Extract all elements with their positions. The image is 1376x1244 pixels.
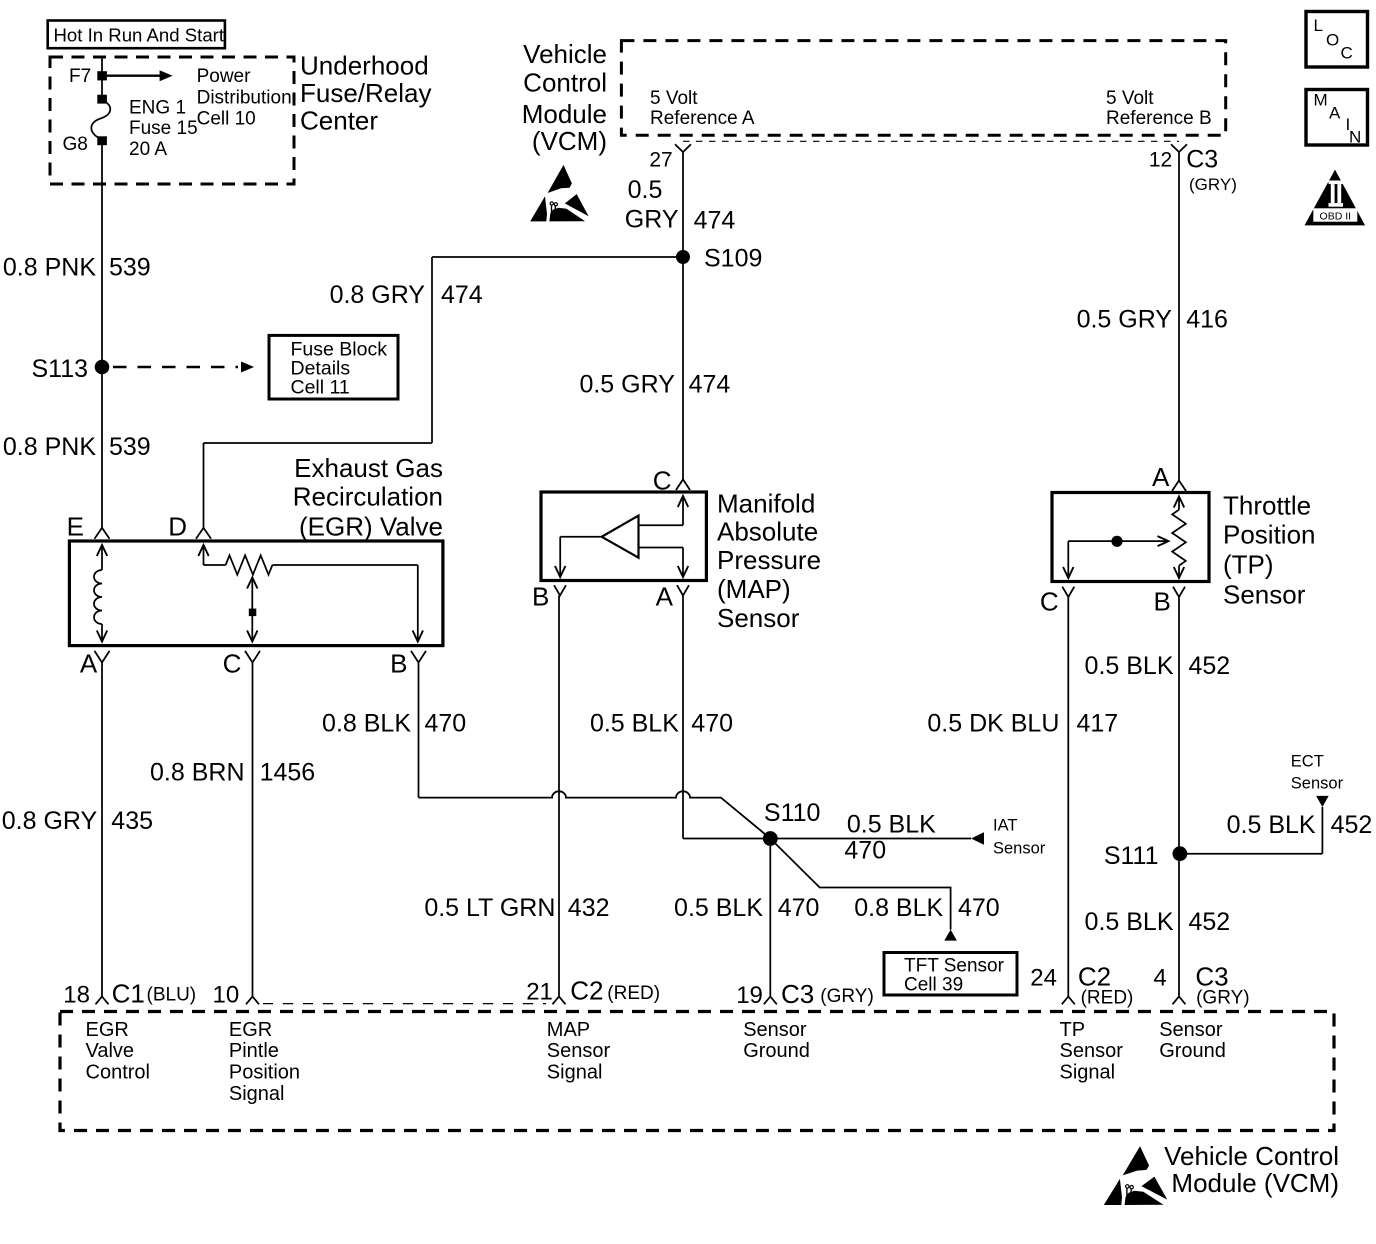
svg-text:Manifold: Manifold [717,488,815,518]
svg-text:(BLU): (BLU) [147,985,197,1006]
svg-text:M: M [1314,91,1328,110]
svg-text:(GRY): (GRY) [1196,988,1249,1009]
svg-text:0.5 LT GRN: 0.5 LT GRN [424,894,555,922]
svg-text:0.8 BRN: 0.8 BRN [150,758,244,786]
svg-text:Ground: Ground [743,1040,810,1062]
svg-text:539: 539 [109,433,151,461]
svg-text:21: 21 [526,979,553,1006]
svg-text:B: B [390,648,407,678]
svg-text:Hot In Run And Start: Hot In Run And Start [54,25,225,46]
svg-text:Reference A: Reference A [650,108,755,129]
svg-text:24: 24 [1030,965,1057,992]
svg-text:A: A [656,582,674,612]
svg-text:C1: C1 [112,979,145,1009]
svg-text:(GRY): (GRY) [820,986,873,1007]
svg-text:0.8 PNK: 0.8 PNK [3,253,96,281]
svg-text:GRY: GRY [625,206,679,234]
svg-text:10: 10 [212,982,239,1009]
svg-text:0.5 BLK: 0.5 BLK [1085,908,1174,936]
svg-text:Signal: Signal [547,1062,603,1084]
svg-text:Center: Center [300,106,378,136]
svg-text:(RED): (RED) [607,983,660,1004]
svg-text:Module (VCM): Module (VCM) [1171,1168,1339,1198]
svg-text:Cell 11: Cell 11 [291,377,350,399]
svg-text:0.5 BLK: 0.5 BLK [1085,652,1174,680]
svg-text:(TP): (TP) [1223,549,1274,579]
svg-text:S113: S113 [31,355,88,383]
svg-text:O: O [1326,31,1339,50]
svg-text:L: L [1314,16,1323,35]
svg-text:(GRY): (GRY) [1189,175,1237,194]
svg-text:Underhood: Underhood [300,51,429,81]
svg-text:IAT: IAT [993,817,1017,835]
svg-text:435: 435 [111,807,153,835]
svg-text:470: 470 [425,710,467,738]
svg-text:TFT Sensor: TFT Sensor [904,956,1005,977]
svg-text:C3: C3 [781,979,814,1009]
svg-text:EGR: EGR [229,1019,272,1041]
svg-text:C3: C3 [1186,146,1218,174]
svg-text:Valve: Valve [86,1040,135,1062]
svg-text:474: 474 [689,370,731,398]
svg-text:ENG 1: ENG 1 [129,98,186,119]
svg-text:0.5 BLK: 0.5 BLK [1227,811,1316,839]
svg-text:470: 470 [844,837,886,865]
svg-text:A: A [1152,462,1170,492]
svg-text:C: C [1040,587,1059,617]
svg-text:Vehicle: Vehicle [523,39,607,69]
svg-text:EGR: EGR [86,1019,129,1041]
svg-text:Sensor: Sensor [1223,579,1306,609]
svg-text:474: 474 [694,206,736,234]
svg-text:19: 19 [736,982,763,1009]
svg-text:C: C [223,648,242,678]
svg-text:Pressure: Pressure [717,545,821,575]
svg-text:470: 470 [691,710,733,738]
svg-text:Fuse 15: Fuse 15 [129,118,198,139]
svg-text:Distribution: Distribution [197,87,292,108]
svg-text:470: 470 [778,894,820,922]
svg-text:4: 4 [1153,965,1166,992]
svg-text:Absolute: Absolute [717,517,818,547]
svg-text:Sensor: Sensor [717,603,800,633]
svg-text:5 Volt: 5 Volt [650,88,698,109]
svg-text:S110: S110 [764,799,821,827]
svg-text:Power: Power [197,66,252,87]
svg-text:Throttle: Throttle [1223,491,1311,521]
svg-text:Module: Module [522,99,607,129]
svg-text:Reference B: Reference B [1106,108,1212,129]
svg-text:Cell 39: Cell 39 [904,975,963,996]
svg-text:TP: TP [1060,1019,1086,1041]
svg-text:Control: Control [86,1062,150,1084]
svg-text:12: 12 [1149,148,1172,171]
svg-text:1456: 1456 [260,758,316,786]
svg-text:20 A: 20 A [129,139,167,160]
svg-text:ECT: ECT [1291,753,1324,771]
svg-text:N: N [1349,128,1361,147]
svg-text:A: A [1329,104,1341,123]
svg-text:C: C [1341,44,1353,63]
svg-text:E: E [67,512,84,542]
svg-text:Position: Position [229,1062,300,1084]
svg-text:Sensor: Sensor [1291,775,1344,793]
svg-text:432: 432 [568,894,610,922]
svg-text:27: 27 [649,149,672,172]
svg-text:0.8 GRY: 0.8 GRY [2,807,98,835]
svg-text:(EGR) Valve: (EGR) Valve [299,512,443,542]
svg-text:474: 474 [441,281,483,309]
svg-text:F7: F7 [69,66,91,87]
svg-text:B: B [532,582,549,612]
svg-text:Sensor: Sensor [1060,1040,1124,1062]
svg-text:OBD II: OBD II [1320,210,1352,222]
svg-text:(VCM): (VCM) [532,126,607,156]
svg-text:D: D [168,512,187,542]
svg-text:Sensor: Sensor [547,1040,611,1062]
svg-text:Ground: Ground [1159,1040,1226,1062]
svg-text:(MAP): (MAP) [717,574,791,604]
svg-text:Sensor: Sensor [743,1019,807,1041]
svg-text:Recirculation: Recirculation [293,481,443,511]
svg-text:452: 452 [1189,652,1231,680]
svg-text:0.8 BLK: 0.8 BLK [854,894,943,922]
svg-text:452: 452 [1331,811,1373,839]
svg-text:539: 539 [109,253,151,281]
svg-text:0.5 BLK: 0.5 BLK [674,894,763,922]
svg-text:Pintle: Pintle [229,1040,279,1062]
svg-text:0.8 PNK: 0.8 PNK [3,433,96,461]
svg-text:MAP: MAP [547,1019,590,1041]
svg-text:0.5 GRY: 0.5 GRY [579,370,675,398]
svg-text:470: 470 [958,894,1000,922]
svg-text:B: B [1153,587,1170,617]
svg-text:0.8 GRY: 0.8 GRY [330,281,426,309]
svg-text:(RED): (RED) [1081,988,1134,1009]
svg-text:G8: G8 [63,134,88,155]
svg-text:0.5 GRY: 0.5 GRY [1077,306,1173,334]
svg-text:C2: C2 [570,976,603,1006]
svg-text:417: 417 [1077,710,1119,738]
svg-text:S111: S111 [1104,842,1159,870]
svg-text:S109: S109 [704,244,762,272]
svg-text:18: 18 [63,982,90,1009]
svg-text:Fuse/Relay: Fuse/Relay [300,78,432,108]
svg-text:0.5: 0.5 [628,176,663,204]
svg-text:Control: Control [523,68,607,98]
svg-text:452: 452 [1189,908,1231,936]
svg-text:Signal: Signal [229,1083,285,1105]
svg-text:Signal: Signal [1060,1062,1116,1084]
svg-text:5 Volt: 5 Volt [1106,88,1154,109]
svg-text:0.5 BLK: 0.5 BLK [590,710,679,738]
svg-text:Exhaust Gas: Exhaust Gas [294,453,443,483]
svg-text:416: 416 [1186,306,1228,334]
svg-text:Position: Position [1223,519,1316,549]
svg-text:0.8 BLK: 0.8 BLK [322,710,411,738]
svg-text:Sensor: Sensor [993,840,1046,858]
svg-text:0.5 BLK: 0.5 BLK [847,810,936,838]
svg-text:Sensor: Sensor [1159,1019,1223,1041]
svg-text:Cell 10: Cell 10 [197,109,256,130]
svg-text:Vehicle Control: Vehicle Control [1164,1141,1339,1171]
svg-text:0.5 DK BLU: 0.5 DK BLU [927,710,1059,738]
